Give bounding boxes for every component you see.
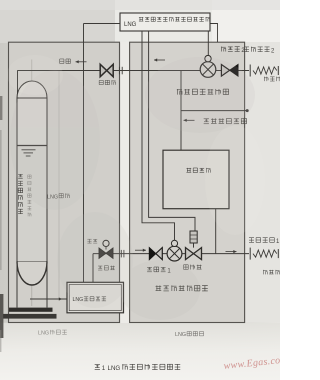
svg-text:LNG: LNG [38, 331, 49, 337]
tank liquid level line [17, 145, 47, 147]
check valve 2 (half filled, return pipe) [221, 65, 238, 77]
label: pneumatic valve [184, 265, 202, 270]
tank liquid shading [18, 146, 47, 262]
LNG supply unit box (double border) [67, 282, 124, 313]
flow arrow right (liquid to nozzle) [226, 250, 237, 253]
label: control system box title [124, 17, 210, 28]
label: fill nozzle [263, 270, 279, 275]
regulating valve with dome actuator (fill line) [99, 240, 113, 258]
LNG storage tank body with dome [17, 81, 47, 262]
wire: control link from control box down to supply unit [83, 24, 85, 283]
caption: figure 1 LNG dispenser working flow diagram [95, 364, 181, 372]
metal hose 1 (fill) [250, 248, 278, 260]
tank foundation pedestal [3, 308, 57, 319]
stop valve (on return pipe) [100, 64, 113, 76]
label: vertical text column (submerged pump), dark [18, 174, 23, 213]
wire: control line to pneumatic valve actuator [149, 31, 195, 231]
faint scan crease line in station box [58, 71, 60, 300]
label: computer system [186, 168, 210, 173]
control system box (top) [120, 13, 210, 31]
wire: riser from computer box to return pipe [180, 71, 182, 150]
wire: control box left connector [84, 23, 121, 25]
wire: computer box tap to liquid pipe [215, 209, 217, 254]
label: regulating valve [98, 266, 115, 270]
label: return gas [60, 59, 71, 63]
flow arrow right (into supply unit) [52, 297, 62, 300]
label: liquid-phase mass flow meter [156, 285, 208, 291]
svg-text:LNG: LNG [108, 365, 121, 372]
svg-text:LNG: LNG [124, 22, 137, 28]
label: LNG dispenser (under right box) [175, 332, 204, 339]
label: metal hose 2 [244, 47, 275, 55]
gas-phase mass flow meter [200, 55, 216, 77]
label: vertical text column 2, light [28, 175, 32, 216]
svg-text:1: 1 [102, 365, 106, 372]
pneumatic valve with actuator [186, 231, 202, 260]
wire: natural-gas vent line [181, 110, 247, 112]
check valve 1 (half filled, liquid pipe) [149, 248, 162, 260]
LNG station enclosure box [9, 42, 120, 322]
liquid-phase mass flow meter [167, 240, 182, 261]
tank centerline pipe [31, 60, 33, 307]
LNG dispenser enclosure box [130, 42, 245, 322]
tank support skirt [17, 262, 47, 308]
label: LNG storage tank [47, 193, 69, 200]
computer system box [163, 150, 229, 209]
wire: tank outlet to supply unit [30, 298, 67, 300]
label: fill liquid [87, 239, 97, 243]
red site watermark [223, 354, 288, 372]
label: return gas nozzle [264, 77, 280, 82]
tank dished bottom bowl [17, 262, 47, 285]
vent port dot [246, 109, 249, 112]
liquid level marks [22, 150, 36, 156]
label: gas-phase mass flow meter [177, 89, 229, 95]
svg-text:LNG: LNG [175, 332, 186, 338]
label: natural gas vent port [204, 118, 247, 123]
flange pair on return pipe [119, 67, 122, 75]
label: LNG supply unit [73, 297, 107, 303]
wire: liquid pipe riser from supply unit [92, 254, 94, 283]
tank dome chord line [17, 97, 47, 99]
scan smudges on left edge [0, 96, 3, 352]
metal hose 2 (return) [250, 65, 278, 77]
wire: vapour-return pipe (top line) [18, 70, 250, 72]
label: stop valve [99, 80, 115, 85]
label: check valve 1 [147, 267, 171, 275]
flow arrow right (liquid into dispenser) [135, 249, 146, 252]
label: metal hose 1 [249, 238, 280, 246]
scan mottling [10, 57, 255, 320]
wire: control drop to gas-phase meter [207, 31, 209, 56]
flow arrow left (return gas, station side) [76, 60, 87, 63]
flange pair on liquid pipe [121, 250, 124, 258]
flow arrow left (return gas, dispenser side) [154, 58, 165, 61]
label: check valve 2 [221, 46, 245, 54]
wire: control box right hook connector [210, 24, 218, 43]
wire: liquid fill pipe (bottom line) [93, 253, 249, 255]
flow arrow left (vent) [184, 119, 195, 122]
wire: vapour-return drop into tank dome [17, 70, 19, 95]
wire: control line to liquid-phase meter [142, 31, 175, 241]
label: LNG filling station (under left box) [38, 330, 67, 337]
